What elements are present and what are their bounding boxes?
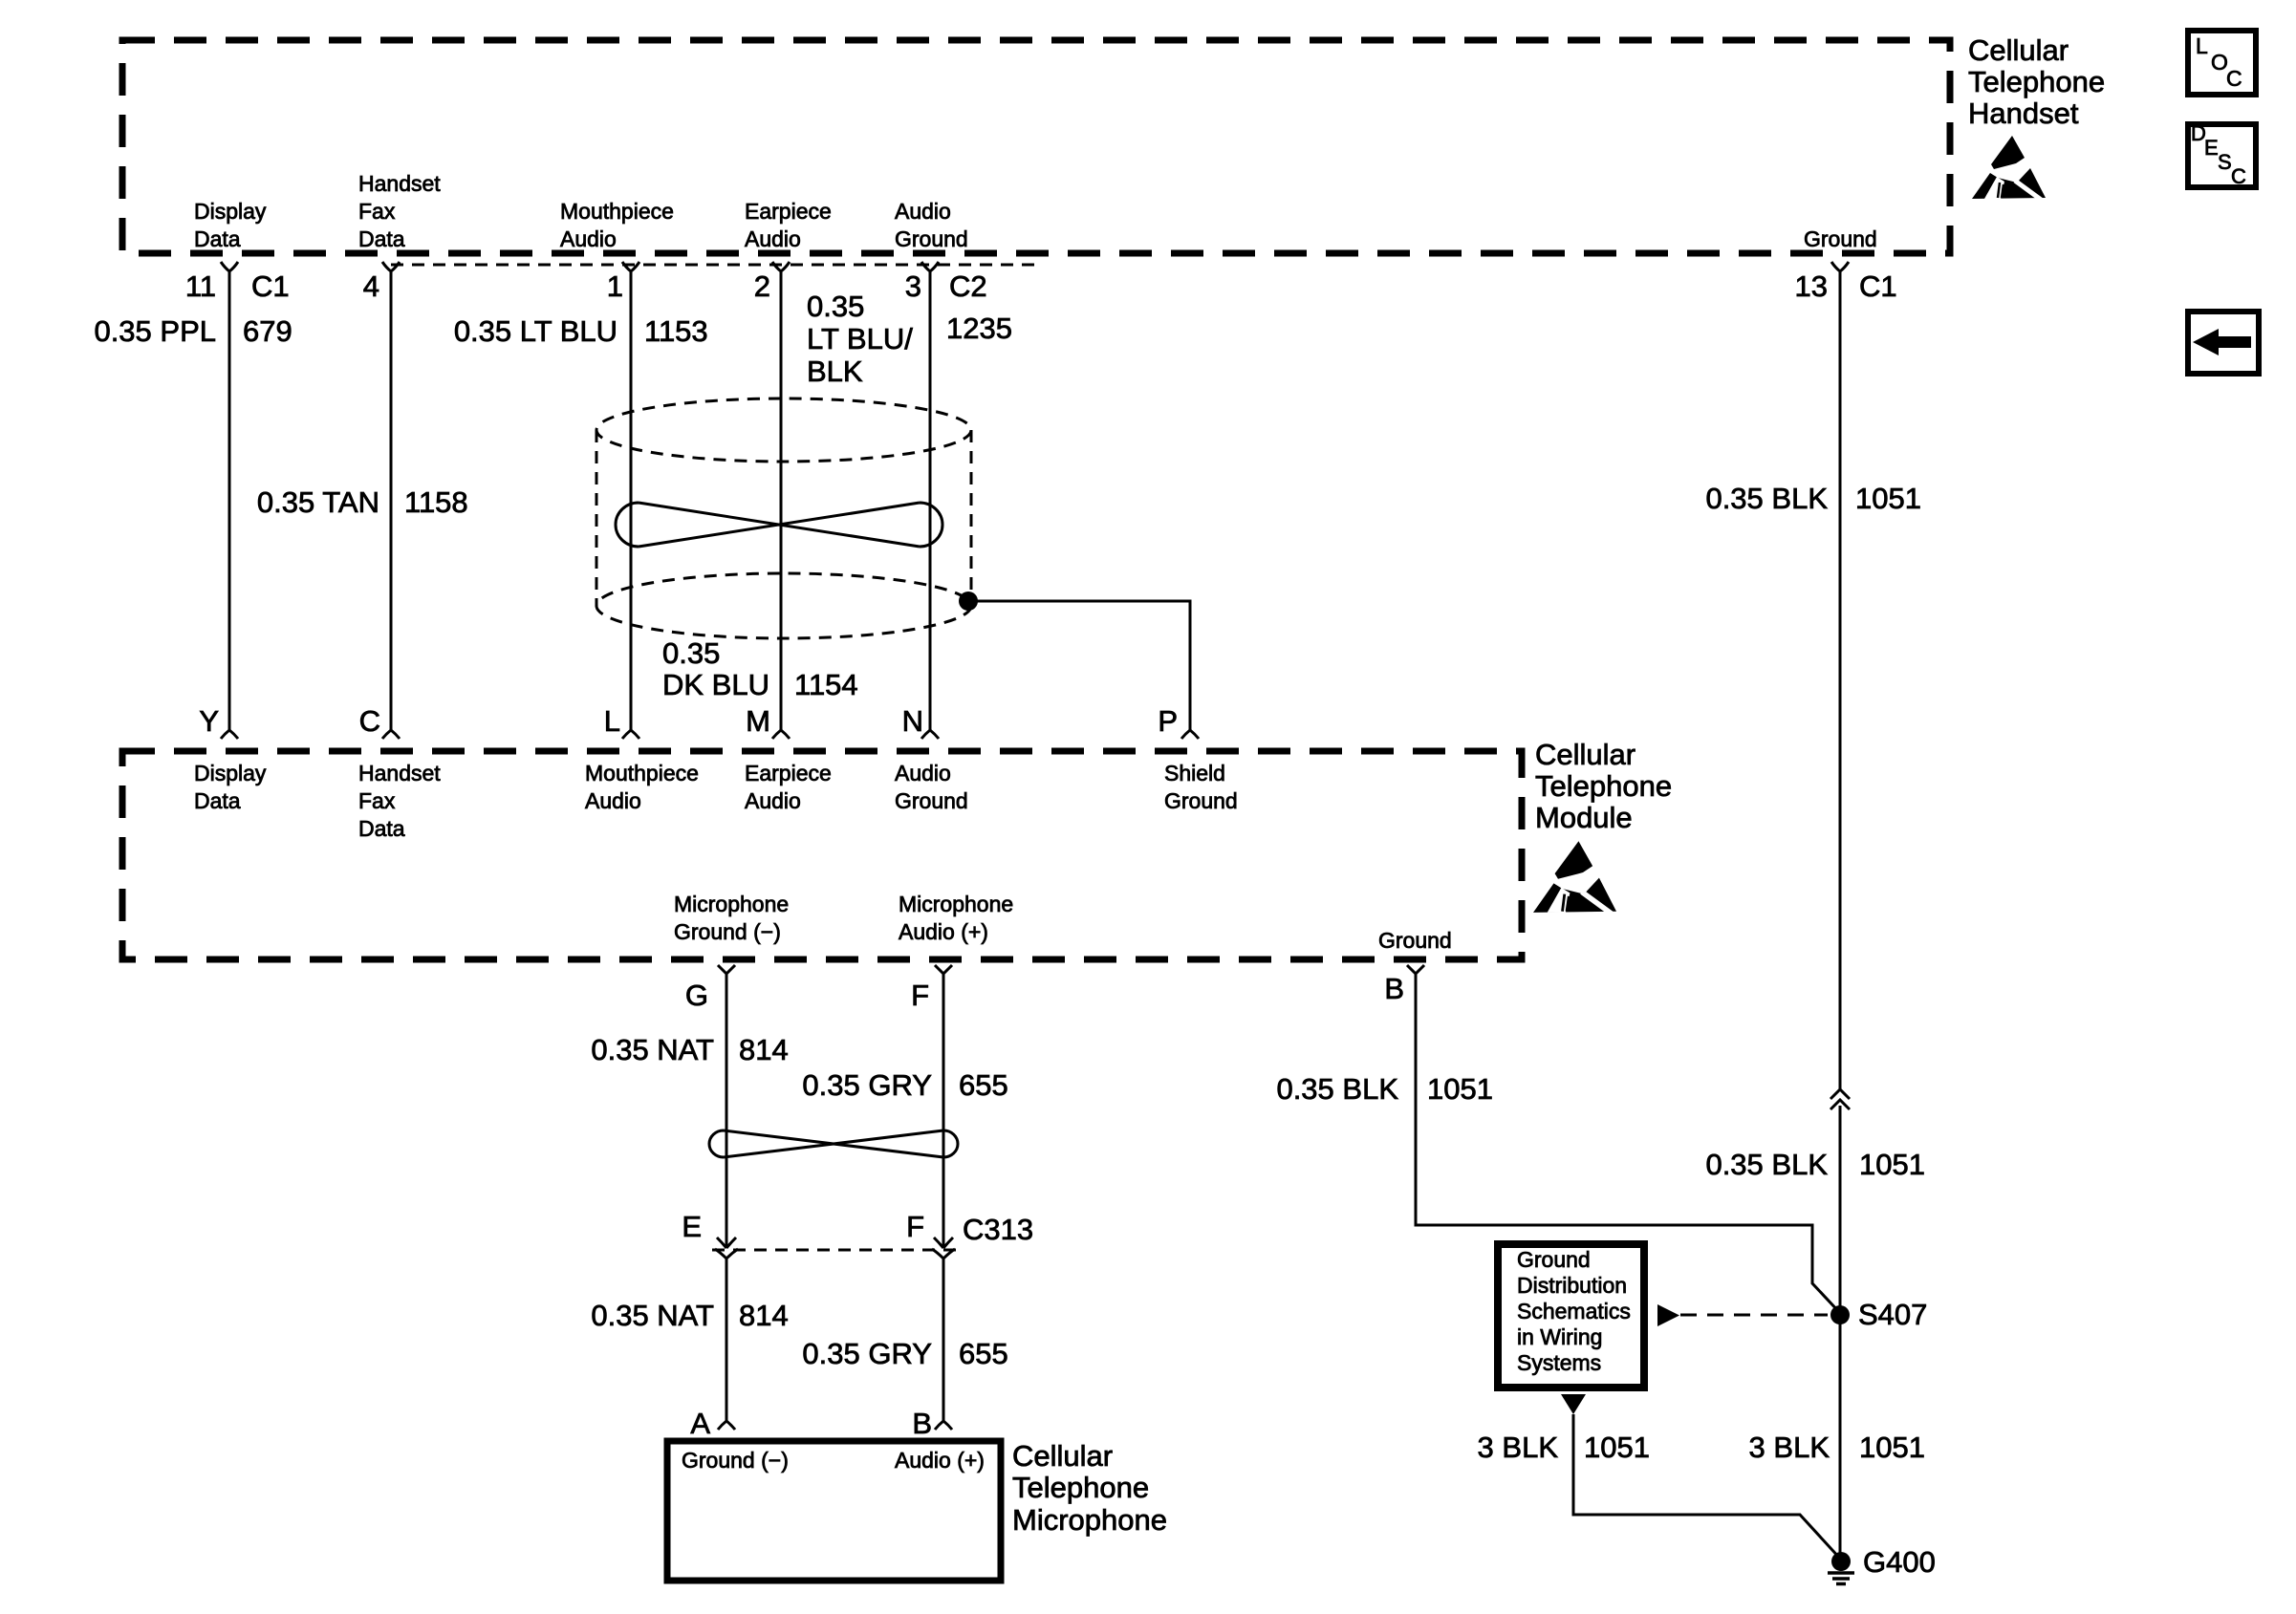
svg-text:655: 655	[959, 1337, 1008, 1370]
svg-text:1051: 1051	[1859, 1431, 1925, 1464]
connector C313 (dashed)	[712, 1249, 961, 1252]
svg-text:DK BLU: DK BLU	[662, 668, 769, 701]
node: shield drain junction	[959, 592, 978, 611]
svg-text:Fax: Fax	[358, 788, 396, 813]
svg-text:S: S	[2218, 150, 2232, 174]
svg-text:E: E	[682, 1210, 702, 1243]
svg-text:Handset: Handset	[1968, 97, 2079, 130]
terminal at C313 x=760	[717, 1237, 736, 1248]
svg-text:1158: 1158	[404, 485, 468, 519]
svg-text:Systems: Systems	[1517, 1350, 1601, 1375]
svg-text:Ground: Ground	[1804, 226, 1877, 251]
box: Cellular Telephone Handset (dashed)	[122, 40, 1950, 253]
svg-text:C: C	[2226, 66, 2242, 91]
svg-text:0.35 LT BLU: 0.35 LT BLU	[454, 314, 617, 348]
svg-text:Audio: Audio	[585, 788, 641, 813]
box: LOC	[2188, 31, 2256, 95]
svg-text:Data: Data	[358, 816, 405, 841]
svg-text:Audio (+): Audio (+)	[899, 919, 988, 944]
svg-text:Y: Y	[199, 704, 219, 738]
svg-text:Mouthpiece: Mouthpiece	[560, 199, 674, 224]
shield (dashed cylinder)	[596, 398, 971, 462]
svg-text:Shield: Shield	[1164, 761, 1225, 785]
terminal pin B (module)	[1407, 965, 1424, 974]
svg-text:814: 814	[739, 1033, 789, 1066]
svg-text:C1: C1	[1859, 269, 1897, 303]
terminal pin 4 (handset)	[382, 262, 400, 271]
svg-text:0.35 GRY: 0.35 GRY	[802, 1337, 932, 1370]
icon: ESD symbol (module)	[1533, 841, 1616, 915]
svg-text:814: 814	[739, 1299, 789, 1332]
svg-text:0.35 NAT: 0.35 NAT	[591, 1033, 714, 1066]
box: Cellular Telephone Microphone (solid)	[667, 1441, 1001, 1581]
svg-text:F: F	[906, 1210, 924, 1243]
svg-text:3 BLK: 3 BLK	[1478, 1431, 1559, 1464]
svg-text:A: A	[690, 1407, 710, 1440]
svg-text:Display: Display	[194, 199, 267, 224]
svg-text:0.35 PPL: 0.35 PPL	[94, 314, 216, 348]
box: back arrow	[2188, 312, 2259, 374]
svg-text:Module: Module	[1535, 801, 1633, 834]
svg-text:0.35: 0.35	[807, 290, 864, 323]
svg-text:Ground: Ground	[1164, 788, 1238, 813]
svg-text:P: P	[1158, 704, 1178, 738]
svg-text:Ground: Ground	[895, 226, 968, 251]
svg-text:Data: Data	[358, 226, 405, 251]
svg-text:Schematics: Schematics	[1517, 1299, 1631, 1323]
wire 0.35 NAT 814 (lower)	[726, 1259, 728, 1421]
ground symbol G400	[1828, 1573, 1854, 1584]
svg-text:655: 655	[959, 1068, 1008, 1102]
svg-text:G: G	[685, 979, 708, 1012]
svg-text:C2: C2	[949, 269, 987, 303]
svg-text:Ground (−): Ground (−)	[674, 919, 781, 944]
svg-text:0.35 TAN: 0.35 TAN	[257, 485, 379, 519]
svg-text:1051: 1051	[1855, 482, 1921, 515]
svg-text:2: 2	[754, 269, 770, 303]
svg-text:B: B	[1384, 972, 1404, 1005]
svg-text:S407: S407	[1858, 1298, 1927, 1331]
wire shield ground to pin P	[968, 601, 1190, 730]
svg-text:Display: Display	[194, 761, 267, 785]
svg-text:Telephone: Telephone	[1535, 769, 1672, 803]
terminal pin 11 (handset)	[221, 262, 238, 271]
svg-text:Cellular: Cellular	[1535, 738, 1635, 771]
twisted pair symbol (mouthpiece/audio ground)	[616, 503, 942, 547]
svg-text:L: L	[604, 704, 620, 738]
svg-text:Microphone: Microphone	[899, 892, 1013, 916]
box: DESC	[2188, 124, 2256, 187]
svg-text:Distribution: Distribution	[1517, 1273, 1627, 1298]
svg-text:0.35 BLK: 0.35 BLK	[1705, 1148, 1828, 1181]
svg-text:Fax: Fax	[358, 199, 396, 224]
node S407	[1830, 1305, 1850, 1324]
svg-text:Audio: Audio	[895, 761, 951, 785]
svg-text:1235: 1235	[946, 312, 1012, 345]
svg-text:0.35: 0.35	[662, 636, 720, 670]
svg-text:Ground: Ground	[1517, 1247, 1591, 1272]
wire 3 BLK 1051 (to G400)	[1573, 1414, 1841, 1560]
svg-text:Ground: Ground	[1378, 928, 1452, 953]
svg-text:4: 4	[363, 269, 379, 303]
svg-text:Microphone: Microphone	[674, 892, 789, 916]
wire Handset Fax Data 0.35 TAN 1158	[390, 271, 393, 730]
svg-text:Audio (+): Audio (+)	[895, 1448, 985, 1473]
svg-text:C1: C1	[251, 269, 290, 303]
svg-text:1: 1	[607, 269, 623, 303]
svg-text:0.35 NAT: 0.35 NAT	[591, 1299, 714, 1332]
svg-text:Telephone: Telephone	[1012, 1471, 1149, 1504]
wire Mouthpiece Audio 0.35 LT BLU 1153	[630, 271, 633, 730]
svg-text:11: 11	[185, 269, 216, 303]
svg-text:Handset: Handset	[358, 761, 441, 785]
svg-text:C313: C313	[963, 1213, 1033, 1246]
svg-text:E: E	[2204, 136, 2219, 160]
svg-text:Audio: Audio	[560, 226, 617, 251]
svg-text:M: M	[746, 704, 770, 738]
wire Audio Ground 0.35 LT BLU/BLK 1235	[929, 271, 932, 730]
svg-text:Cellular: Cellular	[1012, 1439, 1113, 1473]
wire 0.35 GRY 655 (lower)	[942, 1259, 945, 1421]
svg-text:1051: 1051	[1427, 1072, 1493, 1106]
svg-text:0.35 BLK: 0.35 BLK	[1276, 1072, 1398, 1106]
wire Ground 0.35 BLK 1051 (handset to S407)	[1839, 271, 1842, 1090]
svg-text:F: F	[911, 979, 929, 1012]
svg-text:L: L	[2196, 33, 2208, 58]
svg-text:Telephone: Telephone	[1968, 65, 2105, 98]
svg-text:Cellular: Cellular	[1968, 33, 2069, 67]
wire Display Data 0.35 PPL 679	[228, 271, 231, 730]
svg-text:Microphone: Microphone	[1012, 1503, 1167, 1537]
svg-text:0.35 BLK: 0.35 BLK	[1705, 482, 1828, 515]
terminal pin 13 C1 (handset ground)	[1831, 262, 1849, 271]
svg-text:1154: 1154	[794, 668, 858, 701]
svg-text:Audio: Audio	[745, 788, 801, 813]
arrow below Ground Distribution box	[1561, 1394, 1586, 1414]
node G400	[1831, 1552, 1851, 1571]
box: Cellular Telephone Module (dashed)	[122, 751, 1522, 959]
terminal pin G (module)	[718, 965, 735, 974]
svg-text:N: N	[902, 704, 923, 738]
pointer arrow from Ground Distribution box	[1657, 1304, 1679, 1326]
wire Microphone Ground 0.35 NAT 814 (upper)	[726, 974, 728, 1248]
svg-text:679: 679	[243, 314, 292, 348]
svg-text:1153: 1153	[644, 314, 708, 348]
svg-text:3: 3	[905, 269, 921, 303]
svg-text:1051: 1051	[1584, 1431, 1650, 1464]
svg-text:G400: G400	[1863, 1545, 1936, 1579]
terminal at C313 x=987	[934, 1237, 953, 1248]
svg-text:BLK: BLK	[807, 355, 863, 388]
svg-text:0.35 GRY: 0.35 GRY	[802, 1068, 932, 1102]
svg-text:C: C	[359, 704, 380, 738]
svg-text:C: C	[2231, 164, 2246, 188]
svg-text:Earpiece: Earpiece	[745, 199, 832, 224]
wire break symbol	[1830, 1089, 1850, 1109]
svg-text:Audio: Audio	[745, 226, 801, 251]
wire Earpiece Audio 0.35 DK BLU 1154	[780, 271, 783, 730]
twisted pair symbol (microphone pair)	[709, 1130, 958, 1157]
connector C2 thin dashed line	[391, 264, 1042, 267]
terminal pin 3 (handset)	[921, 262, 939, 271]
svg-text:Ground (−): Ground (−)	[682, 1448, 789, 1473]
svg-text:Data: Data	[194, 788, 241, 813]
terminal pin F (module)	[935, 965, 952, 974]
svg-text:3 BLK: 3 BLK	[1749, 1431, 1830, 1464]
svg-text:Audio: Audio	[895, 199, 951, 224]
icon: ESD symbol (handset)	[1972, 136, 2046, 202]
wire Ground 0.35 BLK 1051 (module B to S407)	[1416, 974, 1840, 1313]
svg-text:B: B	[912, 1407, 932, 1440]
svg-text:1051: 1051	[1859, 1148, 1925, 1181]
svg-text:LT BLU/: LT BLU/	[807, 322, 913, 355]
svg-text:Earpiece: Earpiece	[745, 761, 832, 785]
svg-text:Ground: Ground	[895, 788, 968, 813]
icon: back arrow	[2193, 329, 2251, 355]
terminal pin 1 (handset)	[622, 262, 639, 271]
terminal pin 2 (handset)	[772, 262, 790, 271]
svg-text:13: 13	[1795, 269, 1828, 303]
svg-text:Data: Data	[194, 226, 241, 251]
svg-text:in Wiring: in Wiring	[1517, 1324, 1602, 1349]
box: Ground Distribution Schematics in Wiring Systems	[1498, 1244, 1644, 1388]
svg-text:Handset: Handset	[358, 171, 441, 196]
svg-text:Mouthpiece: Mouthpiece	[585, 761, 699, 785]
wire Microphone Audio 0.35 GRY 655 (upper)	[942, 974, 945, 1248]
